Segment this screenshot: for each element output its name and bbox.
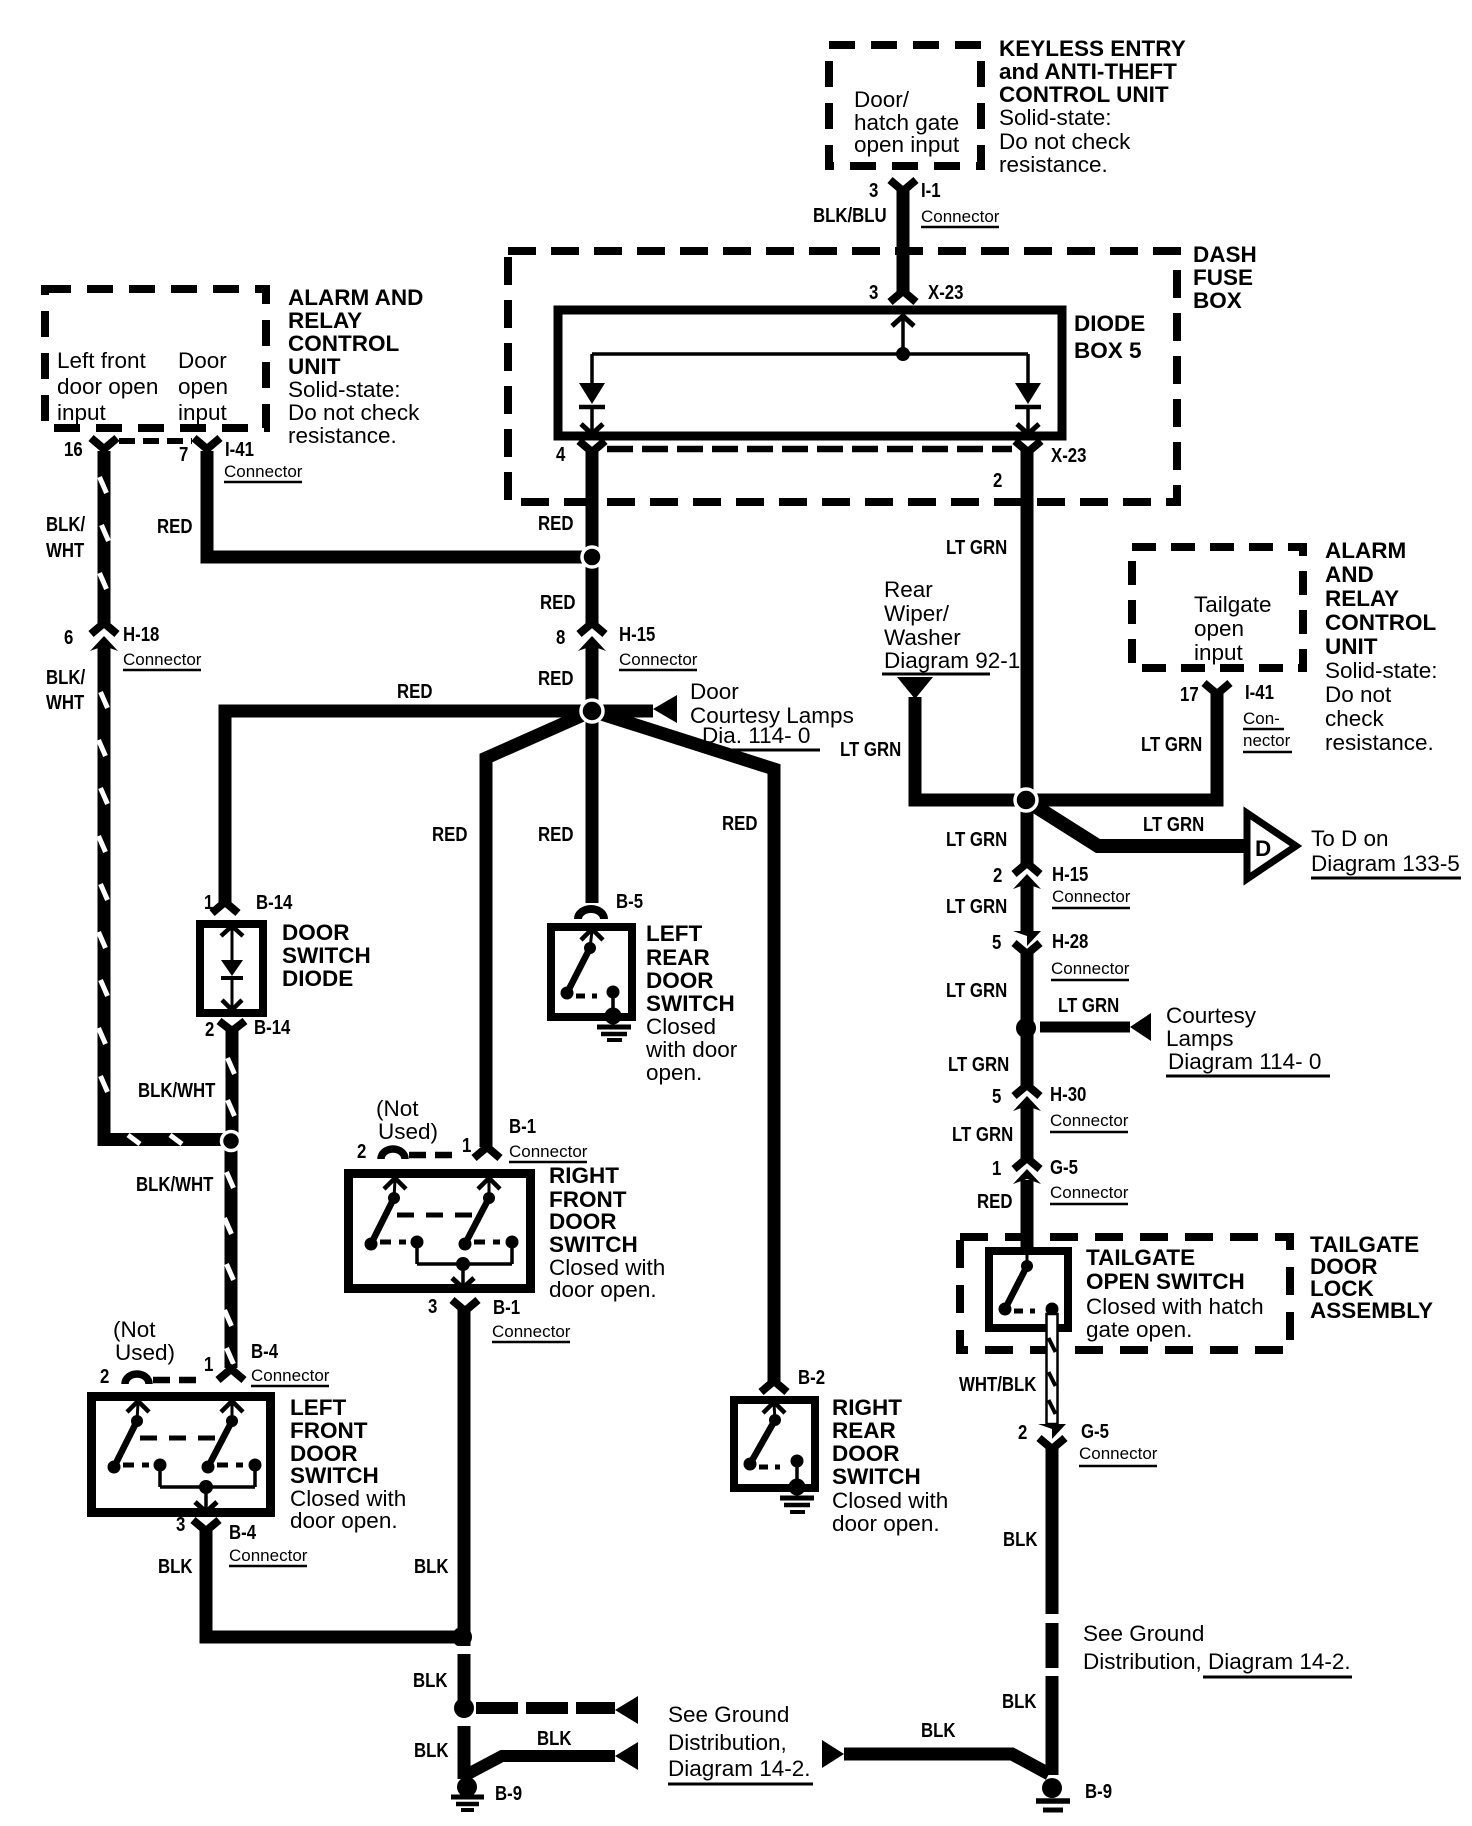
svg-text:5: 5 [992,931,1001,954]
svg-text:B-14: B-14 [254,1016,291,1039]
wire LT GRN H-30 to G-5 [952,1106,1034,1158]
svg-text:ALARM: ALARM [1325,538,1406,563]
svg-text:open input: open input [854,132,960,157]
svg-text:BLK: BLK [1003,1528,1038,1551]
svg-text:Lamps: Lamps [1166,1026,1234,1051]
tailgate open input dashed box [1132,547,1303,668]
svg-text:RED: RED [432,823,467,846]
wire gap marks bottom left [455,1646,473,1654]
LT GRN junction node overlay [1015,789,1037,811]
svg-text:REAR: REAR [646,945,710,970]
svg-text:Closed with hatch: Closed with hatch [1086,1294,1264,1319]
svg-text:1: 1 [204,1353,213,1376]
svg-text:3: 3 [428,1295,437,1318]
svg-text:To D on: To D on [1311,826,1389,851]
svg-text:Diagram 14-2.: Diagram 14-2. [668,1756,811,1781]
svg-text:H-28: H-28 [1052,930,1088,953]
right front door switch right mechanism [459,1178,519,1264]
svg-text:LEFT: LEFT [290,1395,346,1420]
connector B-1 pin 1 [462,1115,588,1162]
svg-text:D: D [1255,836,1271,861]
svg-text:LEFT: LEFT [646,921,702,946]
ground at right rear door switch [780,1479,814,1513]
svg-text:RELAY: RELAY [1325,586,1399,611]
svg-text:FRONT: FRONT [290,1418,368,1443]
svg-text:B-14: B-14 [256,891,293,914]
svg-text:and ANTI-THEFT: and ANTI-THEFT [999,59,1177,84]
svg-text:BLK: BLK [537,1727,572,1750]
tailgate open switch box [989,1251,1068,1328]
D reference triangle [1247,813,1461,879]
svg-text:See Ground: See Ground [668,1702,789,1727]
svg-text:Connector: Connector [229,1546,308,1565]
courtesy lamps stub arrow (right) [1040,994,1330,1076]
svg-text:resistance.: resistance. [999,152,1108,177]
svg-text:H-15: H-15 [619,623,655,646]
ground B-9 (left) [451,1777,522,1810]
svg-text:B-9: B-9 [495,1782,522,1805]
svg-text:Solid-state:: Solid-state: [1325,658,1438,683]
alarm and relay control unit dashed box [45,289,266,428]
junction node BLK/WHT overlay [222,1132,241,1151]
svg-text:LT GRN: LT GRN [946,979,1007,1002]
svg-text:I-41: I-41 [225,438,254,461]
svg-text:DOOR: DOOR [549,1209,617,1234]
svg-text:BLK/: BLK/ [46,666,85,689]
svg-text:Do not check: Do not check [999,129,1131,154]
svg-text:DOOR: DOOR [832,1441,900,1466]
door switch diode box [200,920,371,1013]
svg-text:LT GRN: LT GRN [952,1123,1013,1146]
svg-text:LT GRN: LT GRN [946,536,1007,559]
svg-text:input: input [57,400,107,425]
svg-text:RIGHT: RIGHT [549,1163,619,1188]
svg-text:Solid-state:: Solid-state: [999,105,1112,130]
dashed link B-4 pins 2-1 [153,1377,204,1384]
left rear door switch box [551,927,632,1017]
svg-text:B-9: B-9 [1085,1780,1112,1803]
svg-text:DASH: DASH [1193,242,1257,267]
connector I-1 pin 3 [869,179,1000,227]
svg-text:gate open.: gate open. [1086,1317,1192,1342]
junction node BLK/WHT [222,1132,241,1151]
svg-text:Connector: Connector [492,1322,571,1341]
star junction node overlay [581,700,603,722]
wire RED star diagonal to B-2 [592,711,774,1381]
wire RED star down to B-5 [538,711,599,903]
svg-text:BLK: BLK [921,1719,956,1742]
right rear door switch mechanism [744,1402,804,1487]
svg-text:2: 2 [993,864,1002,887]
svg-text:DOOR: DOOR [646,968,714,993]
wire BLK/WHT B-14 to junction [138,1030,239,1137]
dashed link X-23 pins 4-2 [607,446,1012,453]
wire BLK/WHT H-18 down to corner [46,646,111,1140]
wire BLK G-5 down (upper) [1003,1447,1059,1614]
svg-text:Dia. 114- 0: Dia. 114- 0 [702,723,810,748]
svg-text:B-4: B-4 [229,1521,257,1544]
not used pin 2 of B-1 [357,1096,438,1162]
svg-text:SWITCH: SWITCH [282,943,371,968]
svg-text:G-5: G-5 [1081,1420,1109,1443]
svg-text:open: open [178,374,228,399]
svg-text:I-41: I-41 [1245,681,1274,704]
svg-text:RED: RED [977,1190,1012,1213]
svg-text:2: 2 [993,469,1002,492]
wire BLK/WHT junction down to B-4 pin1 [136,1146,238,1368]
svg-text:CONTROL UNIT: CONTROL UNIT [999,82,1169,107]
svg-text:(Not: (Not [113,1317,156,1342]
svg-text:Con-: Con- [1243,709,1280,728]
svg-text:Door/: Door/ [854,87,910,112]
svg-text:LT GRN: LT GRN [1141,733,1202,756]
connector G-5 pin 1 [992,1156,1129,1204]
left rear door switch mechanism [561,929,620,1016]
diode inside door switch diode [221,926,243,1010]
svg-text:H-18: H-18 [123,623,159,646]
svg-text:2: 2 [100,1365,109,1388]
wire BLK G-5 down (lower) [1002,1676,1059,1775]
svg-text:CONTROL: CONTROL [288,331,399,356]
svg-text:Connector: Connector [123,650,202,669]
right front door switch common leg [397,1215,512,1288]
svg-text:Connector: Connector [1051,959,1130,978]
see ground distribution note (left) [668,1702,813,1784]
alarm and relay control unit title [288,285,423,448]
svg-text:7: 7 [179,443,188,466]
wire LT GRN pin17 down to junction [1032,694,1217,800]
svg-text:DIODE: DIODE [1074,311,1145,336]
junction node BLK (lower) [454,1698,474,1718]
svg-text:resistance.: resistance. [1325,730,1434,755]
svg-text:LT GRN: LT GRN [946,828,1007,851]
wire BLK B-4 pin3 down and right [158,1529,462,1637]
svg-text:Tailgate: Tailgate [1194,592,1272,617]
connector H-15 (center) [556,623,698,670]
dashed BLK wire to see-ground arrow (upper) [476,1696,638,1724]
svg-text:LT GRN: LT GRN [1058,994,1119,1017]
tailgate open switch mechanism [999,1251,1059,1316]
star junction node [581,700,603,722]
svg-text:2: 2 [205,1018,214,1041]
svg-text:(Not: (Not [376,1096,419,1121]
junction node BLK (upper) [452,1627,472,1647]
ground at left rear door switch [597,1008,631,1041]
junction node red wire [582,547,602,567]
wire RED pin7 down and right to junction [157,451,592,557]
svg-text:BLK: BLK [158,1555,193,1578]
wire RED star diagonal to B-1 pin1 [432,711,592,1147]
svg-text:3: 3 [869,179,878,202]
wire LT GRN junction to H-30 [948,1028,1034,1085]
see ground distribution note (right) [1083,1621,1352,1677]
svg-text:2: 2 [1018,1421,1027,1444]
left front door switch box [92,1397,271,1513]
svg-text:door open.: door open. [832,1511,940,1536]
wire RED X-23 pin4 down to H-15 [538,450,599,624]
connector B-1 pin 3 [428,1295,571,1342]
svg-text:RED: RED [540,591,575,614]
svg-text:2: 2 [357,1140,366,1163]
svg-text:H-15: H-15 [1052,863,1088,886]
keyless entry title text [999,36,1186,177]
svg-text:Connector: Connector [1050,1183,1129,1202]
svg-text:RED: RED [722,812,757,835]
svg-text:RELAY: RELAY [288,308,362,333]
svg-text:TAILGATE: TAILGATE [1086,1245,1195,1270]
svg-text:Closed with: Closed with [832,1488,948,1513]
svg-text:input: input [1194,640,1244,665]
svg-text:Door: Door [178,348,227,373]
connector B-4 pin 1 [204,1340,330,1386]
svg-text:3: 3 [176,1513,185,1536]
svg-text:OPEN SWITCH: OPEN SWITCH [1086,1269,1245,1294]
svg-text:BLK/BLU: BLK/BLU [813,204,887,227]
wire BLK/WHT horizontal corner to junction [98,1133,232,1146]
svg-text:Distribution, Diagram 14-2.: Distribution, Diagram 14-2. [1083,1649,1351,1674]
junction node courtesy lamps [1016,1018,1036,1038]
wire RED star to left branch (to B-14) [225,680,592,903]
svg-text:Do not: Do not [1325,682,1392,707]
svg-text:RED: RED [538,823,573,846]
svg-text:H-30: H-30 [1050,1083,1086,1106]
left front door switch title [290,1395,406,1533]
ground B-9 (right) [1036,1778,1112,1810]
svg-text:REAR: REAR [832,1418,896,1443]
left front door switch common leg [140,1438,255,1512]
connector B-2 [761,1366,825,1392]
svg-text:Connector: Connector [921,207,1000,226]
svg-text:with door: with door [645,1037,738,1062]
svg-text:LT GRN: LT GRN [1143,813,1204,836]
wire LT GRN wiper branch [840,697,1020,800]
dash fuse box dashed box [508,242,1257,502]
tailgate door lock assembly title [1310,1232,1433,1323]
rear wiper/washer reference [882,577,1020,699]
svg-text:Connector: Connector [619,650,698,669]
svg-text:door open.: door open. [549,1277,657,1302]
svg-text:input: input [178,400,228,425]
left front door switch left mechanism [108,1401,167,1487]
connector H-15 (right) [993,863,1131,908]
svg-text:Used): Used) [115,1340,175,1365]
svg-text:Connector: Connector [1050,1111,1129,1130]
connector B-14 pin 1 [204,891,293,914]
svg-text:BLK: BLK [414,1555,449,1578]
junction node LT GRN [1015,789,1037,811]
svg-text:LT GRN: LT GRN [948,1053,1009,1076]
diode D1 (left) in diode box [579,354,605,434]
svg-text:Rear: Rear [884,577,933,602]
svg-text:SWITCH: SWITCH [832,1464,921,1489]
svg-text:UNIT: UNIT [288,354,341,379]
svg-text:SWITCH: SWITCH [290,1463,379,1488]
svg-text:Connector: Connector [251,1366,330,1385]
svg-text:I-1: I-1 [921,179,941,202]
svg-text:BLK: BLK [413,1669,448,1692]
svg-text:Door: Door [690,679,739,704]
wire LT GRN X-23 pin2 down to junction [946,450,1034,805]
connector I-41 pin 17 [1180,681,1292,752]
svg-text:AND: AND [1325,562,1374,587]
svg-text:17: 17 [1180,683,1199,706]
connector B-5 [578,890,643,919]
svg-text:BLK/: BLK/ [46,513,85,536]
svg-text:16: 16 [64,438,83,461]
svg-text:4: 4 [556,443,566,466]
svg-text:BOX 5: BOX 5 [1074,338,1142,363]
svg-text:UNIT: UNIT [1325,634,1378,659]
svg-text:RIGHT: RIGHT [832,1395,902,1420]
svg-text:8: 8 [556,626,565,649]
svg-text:Do not check: Do not check [288,400,420,425]
dashed link B-1 pins 2-1 [409,1152,460,1159]
tailgate door lock assembly dashed box [960,1237,1290,1350]
svg-text:DOOR: DOOR [282,920,350,945]
svg-text:RED: RED [397,680,432,703]
svg-text:LT GRN: LT GRN [946,895,1007,918]
svg-text:Diagram 114- 0: Diagram 114- 0 [1168,1049,1321,1074]
connector H-30 [992,1083,1129,1132]
svg-text:6: 6 [64,626,73,649]
wire BLK B-1 pin3 down to grounds [414,1309,471,1701]
svg-text:Diagram 92-1: Diagram 92-1 [884,648,1020,673]
svg-text:See Ground: See Ground [1083,1621,1204,1646]
right alarm and relay control unit title [1325,538,1438,755]
svg-text:Courtesy: Courtesy [1166,1003,1257,1028]
svg-text:RED: RED [538,512,573,535]
svg-text:5: 5 [992,1085,1001,1108]
svg-text:check: check [1325,706,1385,731]
svg-text:Closed: Closed [646,1014,716,1039]
connector B-14 pin 2 [205,1016,291,1041]
svg-text:Connector: Connector [1079,1444,1158,1463]
svg-text:ALARM AND: ALARM AND [288,285,423,310]
wire RED H-15 to star junction [538,646,599,711]
tailgate open switch title [1086,1245,1264,1342]
connector X-23 pin 2 [993,441,1086,491]
svg-text:B-5: B-5 [616,890,643,913]
svg-text:FUSE: FUSE [1193,265,1253,290]
svg-text:Diagram 133-5: Diagram 133-5 [1311,851,1460,876]
connector X-23 pin 4 [556,441,605,465]
svg-text:Wiper/: Wiper/ [884,601,950,626]
svg-text:SWITCH: SWITCH [646,991,735,1016]
svg-text:Connector: Connector [224,462,303,481]
wire BLK to see-ground arrow (lower) [414,1727,638,1775]
svg-text:KEYLESS ENTRY: KEYLESS ENTRY [999,36,1186,61]
svg-text:3: 3 [869,281,878,304]
wire LT GRN junction down to H-15 [946,800,1034,864]
right front door switch left mechanism [365,1178,424,1264]
svg-text:BOX: BOX [1193,288,1242,313]
svg-text:WHT: WHT [46,691,85,714]
diode D2 (right) in diode box [1015,354,1041,434]
svg-text:Connector: Connector [1052,887,1131,906]
svg-text:door open.: door open. [290,1508,398,1533]
svg-text:WHT/BLK: WHT/BLK [959,1373,1037,1396]
svg-text:RED: RED [538,667,573,690]
svg-text:Used): Used) [378,1119,438,1144]
wire BLK/BLU from I-1 to X-23 [813,186,910,292]
connector X-23 pin 3 [869,281,963,304]
svg-text:1: 1 [992,1157,1001,1180]
connector I-41 pin 7 [179,438,303,482]
svg-text:Washer: Washer [884,625,961,650]
svg-text:SWITCH: SWITCH [549,1232,638,1257]
connector B-4 pin 3 [176,1513,308,1566]
diode box internal node wire [592,316,1028,361]
wire LT GRN H-15 to H-28 [946,884,1034,931]
svg-text:1: 1 [204,891,213,914]
keyless entry control unit dashed box [829,45,981,166]
wire BLK dashed break [1046,1623,1059,1668]
wire BLK below lower junction to ground [458,1726,471,1779]
diode box 5 [558,310,1145,436]
courtesy lamps stub arrow from star [600,679,854,750]
svg-text:resistance.: resistance. [288,423,397,448]
svg-text:WHT: WHT [46,539,85,562]
svg-text:open: open [1194,616,1244,641]
svg-text:Left front: Left front [57,348,147,373]
connector H-28 [992,930,1130,980]
svg-text:B-1: B-1 [509,1115,536,1138]
svg-text:B-2: B-2 [798,1366,825,1389]
svg-text:door open: door open [57,374,158,399]
right front door switch box [349,1174,531,1289]
svg-text:open.: open. [646,1060,702,1085]
svg-text:B-1: B-1 [493,1296,520,1319]
svg-text:RED: RED [157,515,192,538]
svg-text:nector: nector [1243,731,1291,750]
svg-text:BLK/WHT: BLK/WHT [136,1173,214,1196]
svg-text:ASSEMBLY: ASSEMBLY [1310,1298,1433,1323]
right front door switch title [549,1163,665,1302]
svg-text:DIODE: DIODE [282,966,353,991]
svg-text:G-5: G-5 [1050,1156,1078,1179]
wire BLK/WHT pin16 to H-18 [46,451,111,623]
right rear door switch box [734,1400,815,1488]
left front door switch right mechanism [202,1401,262,1487]
svg-text:BLK: BLK [414,1739,449,1762]
not used pin 2 of B-4 [100,1317,175,1387]
right rear door switch title [832,1395,948,1536]
wire LT GRN H-28 to courtesy junction [946,952,1034,1028]
connector H-18 [64,623,202,670]
svg-text:1: 1 [462,1134,471,1157]
dashed link I-41 pins 16-7 [119,438,192,444]
svg-text:BLK/WHT: BLK/WHT [138,1079,216,1102]
svg-text:B-4: B-4 [251,1340,279,1363]
connector G-5 pin 2 [1018,1420,1158,1466]
svg-text:Distribution,: Distribution, [668,1730,787,1755]
svg-text:CONTROL: CONTROL [1325,610,1436,635]
wire RED G-5 to tailgate switch [977,1180,1034,1250]
wire WHT/BLK tailgate switch to G-5 [959,1314,1058,1424]
connector I-41 pin 16 [64,438,117,461]
svg-text:BLK: BLK [1002,1690,1037,1713]
wire LT GRN to D arrow [1030,803,1247,846]
svg-text:LT GRN: LT GRN [840,738,901,761]
left rear door switch title [645,921,738,1085]
svg-text:Connector: Connector [509,1142,588,1161]
svg-text:Solid-state:: Solid-state: [288,377,401,402]
ground wire from arrow (right bottom) [822,1719,1049,1774]
svg-text:X-23: X-23 [928,281,963,304]
svg-text:X-23: X-23 [1051,444,1086,467]
